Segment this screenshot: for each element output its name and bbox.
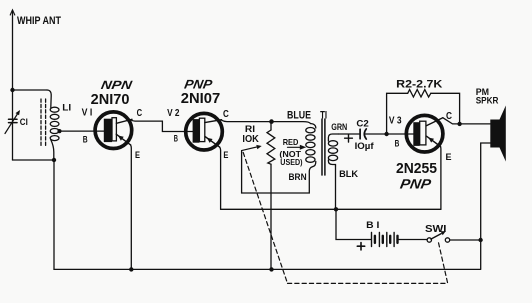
svg-text:PNP: PNP [183,77,214,91]
transformer T1 primary [306,124,316,167]
wire tank bottom [13,159,55,161]
svg-text:LI: LI [62,101,71,112]
node tank bottom junction [52,158,56,162]
wire wiper to T1 primary bottom (box) [242,151,313,193]
svg-text:E: E [223,150,228,160]
svg-text:SWI: SWI [425,224,447,235]
wire V3 collector to speaker [443,118,490,124]
wire V3 emitter down to bus [440,147,442,210]
svg-text:C: C [223,109,229,120]
node R1 bottom on rail [269,267,273,271]
wire speaker lower terminal [481,143,491,269]
transistor V1 2N170 [95,112,132,149]
svg-text:V 3: V 3 [389,115,402,126]
mechanical link dashed (R1 to SW1) [243,153,447,284]
svg-text:B: B [174,133,178,143]
wire emitter bus [221,208,441,210]
whip antenna [10,10,15,90]
node V1 emitter on rail [129,267,133,271]
svg-text:IOµf: IOµf [355,141,375,152]
node R2 left on base wire [384,132,388,136]
svg-text:B: B [395,138,400,148]
svg-text:PNP: PNP [399,176,433,191]
svg-text:NPN: NPN [100,78,133,92]
L1 iron core (dashed) [41,99,46,147]
svg-text:BLK: BLK [339,169,358,179]
svg-text:USED): USED) [280,158,302,167]
node R1 top [269,119,274,124]
svg-text:2NI07: 2NI07 [181,91,220,107]
svg-text:BRN: BRN [289,172,307,182]
svg-text:RED: RED [283,138,299,147]
svg-text:R2-2.7K: R2-2.7K [396,78,442,90]
svg-text:C2: C2 [356,118,368,128]
inductor L1 [47,90,59,160]
capacitor C2 [339,129,416,139]
svg-text:TI: TI [320,109,327,121]
node L1 tap [57,129,61,133]
wire V1 collector to V2 base [131,120,194,131]
wire tank bottom to ground rail [53,160,55,269]
svg-text:WHIP ANT: WHIP ANT [17,15,61,27]
svg-text:V I: V I [82,108,93,119]
transistor V3 2N255 [406,115,443,152]
resistor R2 2.7K [387,90,460,134]
svg-text:2N255: 2N255 [396,161,437,177]
svg-text:E: E [446,152,452,163]
svg-text:B I: B I [366,220,379,230]
T1 core [322,119,325,175]
node R2 right on collector wire [457,122,461,126]
node BLK junction [334,207,338,211]
wire tank left (C1 branch) [12,90,14,160]
wire V2 emitter down [220,147,221,209]
label + (battery) [357,243,364,250]
T1 red center-tap arrow [288,145,307,150]
svg-text:IOK: IOK [242,134,259,145]
wire ground rail [54,268,480,270]
switch SW1 [427,231,450,242]
svg-text:CI: CI [20,117,28,127]
svg-text:GRN: GRN [331,122,347,133]
wire SW1 to speaker line [450,239,481,241]
speaker PM SPKR [490,106,506,162]
svg-text:V 2: V 2 [167,108,180,119]
capacitor C1 (variable) [5,110,20,134]
node antenna/tank junction [10,88,14,92]
resistor R1 10K (pot) [267,122,275,270]
transformer T1 secondary [328,134,338,166]
node SW1 wire junction [478,238,482,242]
svg-text:SPKR: SPKR [476,96,499,106]
transistor V2 2N107 [186,113,223,150]
wire tank top [13,89,48,91]
wire L1 tap to V1 base [60,130,105,132]
svg-text:2NI70: 2NI70 [91,92,130,108]
wire V2 collector to T1 primary top [221,120,311,124]
svg-text:BLUE: BLUE [287,109,311,121]
wire BLK to emitter bus [335,166,337,209]
wire V1 emitter to rail [130,145,133,270]
svg-text:B: B [83,134,88,144]
battery B1 [336,209,427,246]
svg-text:RI: RI [245,124,255,134]
svg-text:C: C [137,108,143,119]
R1 wiper arrow [242,145,262,151]
label + (C2) [345,134,353,142]
svg-text:E: E [135,150,140,160]
